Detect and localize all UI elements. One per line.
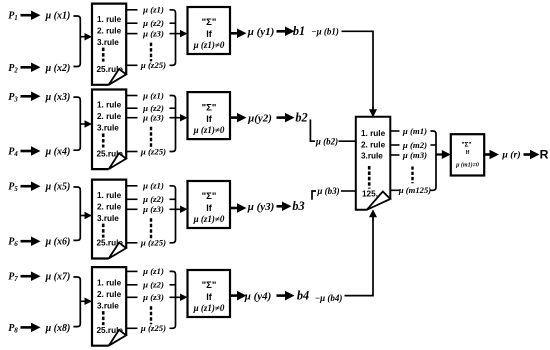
wire z25 left tick row3 <box>126 242 137 244</box>
z ellipsis dots row3 <box>150 218 152 239</box>
label mu(y3) <box>247 201 275 213</box>
node b2 <box>295 110 307 124</box>
wire x5/x6 bus <box>73 187 80 240</box>
label mu(z25) row2 <box>140 146 166 156</box>
rule block 4 ellipsis dots <box>102 311 105 325</box>
label mu(z25) row1 <box>140 60 166 70</box>
svg-text:2. rule: 2. rule <box>97 26 122 35</box>
svg-text:3.rule: 3.rule <box>97 214 119 223</box>
sum block 4 text <box>193 280 225 313</box>
svg-text:2. rule: 2. rule <box>97 112 122 121</box>
svg-text:μ (z3): μ (z3) <box>142 113 164 123</box>
svg-text:μ (r): μ (r) <box>501 149 520 160</box>
arrow into main block top <box>369 107 377 117</box>
wire m2 left tick <box>390 144 399 146</box>
label mu(x3) <box>45 92 71 103</box>
wire z1 left tick row4 <box>126 270 137 272</box>
svg-text:μ (x6): μ (x6) <box>45 237 71 248</box>
node P4 <box>8 147 18 159</box>
rule block 2 box <box>92 90 126 170</box>
label mu(x4) <box>45 147 71 158</box>
arrow P3 to membership <box>21 92 41 102</box>
arrow P4 to membership <box>21 146 41 156</box>
label mu(z2) row2 <box>142 103 164 113</box>
svg-text:1. rule: 1. rule <box>361 129 386 138</box>
wire m3 left tick <box>390 154 399 156</box>
svg-text:μ (x7): μ (x7) <box>45 272 71 283</box>
main rule block text <box>361 129 386 199</box>
label mu(z3) row1 <box>142 28 164 38</box>
rule block 2 folded corner <box>109 153 127 169</box>
svg-text:μ (z1): μ (z1) <box>142 5 164 15</box>
final sum block text <box>455 141 479 168</box>
label mu(z1) row4 <box>142 266 164 276</box>
label mu(z2) row4 <box>142 280 164 290</box>
z ellipsis dots row4 <box>150 306 152 324</box>
arrow to b3 <box>277 202 292 212</box>
svg-text:μ (m3): μ (m3) <box>402 150 427 160</box>
svg-text:μ (x1): μ (x1) <box>45 11 71 22</box>
arrow out of sum block 1 <box>230 29 247 39</box>
wire z3 left tick row3 <box>126 208 137 210</box>
svg-text:μ (z1): μ (z1) <box>142 266 164 276</box>
svg-text:μ (z2): μ (z2) <box>142 280 164 290</box>
wire x7/x8 bus <box>73 277 80 327</box>
svg-text:−μ (b1): −μ (b1) <box>311 26 339 36</box>
wire b3 elbow <box>312 191 316 200</box>
wire z bus row1 <box>170 10 176 66</box>
svg-text:b1: b1 <box>293 24 305 38</box>
label -mu(b1) <box>311 26 339 36</box>
wire b4 to main block bottom <box>345 220 374 296</box>
svg-text:μ (y1): μ (y1) <box>247 26 275 38</box>
sum block 1 text <box>193 17 225 50</box>
rule block 1 box <box>92 4 126 85</box>
node b1 <box>293 24 305 38</box>
arrow P2 to membership <box>21 63 41 73</box>
wire z bus row3 <box>170 186 176 243</box>
arrow P7 to membership <box>21 271 41 281</box>
svg-text:μ (y4): μ (y4) <box>244 290 272 302</box>
main rule block folded corner <box>367 192 391 210</box>
label mu(y4) <box>244 290 272 302</box>
wire z2 left tick row2 <box>126 107 137 109</box>
svg-text:μ (z25): μ (z25) <box>140 60 166 70</box>
label mu(x8) <box>45 323 71 334</box>
node b3 <box>292 199 304 213</box>
svg-text:If: If <box>466 150 470 156</box>
arrow into sum block 3 <box>170 206 188 214</box>
wire z1 left tick row1 <box>126 9 137 11</box>
svg-text:μ (b2): μ (b2) <box>315 136 338 146</box>
svg-text:3.rule: 3.rule <box>97 124 119 133</box>
rule block 3 folded corner <box>109 243 127 259</box>
z ellipsis dots row2 <box>150 127 152 148</box>
wire b1 to main block top <box>342 31 374 108</box>
rule block 3 box <box>92 180 126 259</box>
arrow to b2 <box>277 113 295 123</box>
svg-text:μ (z2): μ (z2) <box>142 194 164 204</box>
rule block 4 text <box>97 278 124 335</box>
arrow into main block bottom <box>369 209 377 221</box>
label mu(z25) row4 <box>140 323 166 333</box>
svg-text:μ (x4): μ (x4) <box>45 147 71 158</box>
svg-text:μ (x3): μ (x3) <box>45 92 71 103</box>
wire z25 left tick row1 <box>126 64 137 66</box>
label mu(y1) <box>247 26 275 38</box>
sum block 2 text <box>193 102 225 135</box>
rule block 1 text <box>97 15 124 74</box>
svg-text:μ (x2): μ (x2) <box>45 63 71 74</box>
node P5 <box>8 182 18 194</box>
m ellipsis dots <box>411 167 413 184</box>
svg-text:1. rule: 1. rule <box>97 101 122 110</box>
node b4 <box>297 288 309 302</box>
label mu(z2) row1 <box>142 18 164 28</box>
wire x1/x2 bus <box>73 16 80 67</box>
wire z1 left tick row3 <box>126 185 137 187</box>
rule block 4 box <box>92 267 126 346</box>
svg-text:"Σ": "Σ" <box>202 102 217 113</box>
label mu(z1) row3 <box>142 181 164 191</box>
label mu(b3) <box>316 186 339 196</box>
node P1 <box>8 11 18 23</box>
svg-text:μ (z25): μ (z25) <box>140 323 166 333</box>
label mu(x7) <box>45 272 71 283</box>
z ellipsis dots row1 <box>150 43 152 62</box>
label mu(r) <box>501 149 520 160</box>
svg-text:2. rule: 2. rule <box>97 290 122 299</box>
arrow P1 to membership <box>21 10 41 20</box>
wire z3 left tick row1 <box>126 33 137 35</box>
svg-text:2. rule: 2. rule <box>97 202 122 211</box>
rule block 3 text <box>97 191 124 248</box>
svg-text:"Σ": "Σ" <box>202 17 217 28</box>
svg-text:μ (y3): μ (y3) <box>247 201 275 213</box>
svg-text:1. rule: 1. rule <box>97 191 122 200</box>
label mu(z1) row2 <box>142 90 164 100</box>
wire mu(b2) to main block <box>339 140 357 142</box>
arrow into rule block 4 <box>80 298 93 306</box>
arrow out of sum block 2 <box>230 113 247 123</box>
arrow into final sum block <box>436 150 451 159</box>
rule block 4 folded corner <box>109 330 127 346</box>
label mu(z3) row2 <box>142 113 164 123</box>
arrow to b4 <box>277 291 295 301</box>
wire z25 left tick row2 <box>126 151 137 153</box>
arrow into rule block 1 <box>80 33 93 41</box>
label mu(z2) row3 <box>142 194 164 204</box>
sum block 3 text <box>193 191 225 224</box>
svg-text:1. rule: 1. rule <box>97 15 122 24</box>
arrow to b1 <box>277 27 295 37</box>
svg-text:μ (z3): μ (z3) <box>142 292 164 302</box>
sum block 1 box <box>188 7 231 54</box>
rule block 2 ellipsis dots <box>102 134 105 148</box>
rule block 1 ellipsis dots <box>102 48 105 62</box>
svg-text:2. rule: 2. rule <box>361 140 386 149</box>
svg-text:μ (z1)≠0: μ (z1)≠0 <box>193 214 225 224</box>
arrow P8 to membership <box>21 323 41 333</box>
svg-text:μ (x8): μ (x8) <box>45 323 71 334</box>
svg-text:μ (m1): μ (m1) <box>402 126 427 136</box>
svg-text:μ (m125): μ (m125) <box>398 185 431 195</box>
svg-text:125.: 125. <box>362 189 378 198</box>
svg-text:"Σ": "Σ" <box>202 280 217 291</box>
label mu(m1) <box>402 126 427 136</box>
svg-text:b4: b4 <box>297 288 309 302</box>
label mu(y2) <box>247 112 272 124</box>
node R <box>540 148 549 162</box>
label mu(m2) <box>402 140 427 150</box>
sum block 4 box <box>188 270 231 317</box>
rule block 2 text <box>97 101 124 159</box>
svg-text:μ (x5): μ (x5) <box>45 182 71 193</box>
wire z bus row4 <box>170 271 176 328</box>
svg-text:μ (z1)≠0: μ (z1)≠0 <box>193 40 225 50</box>
arrow into sum block 4 <box>170 294 188 302</box>
arrow into sum block 1 <box>170 30 188 37</box>
label mu(z3) row4 <box>142 292 164 302</box>
svg-text:μ (z25): μ (z25) <box>140 146 166 156</box>
svg-text:μ (m1)≠0: μ (m1)≠0 <box>455 162 479 169</box>
arrow P6 to membership <box>21 236 41 246</box>
svg-text:1. rule: 1. rule <box>97 278 122 287</box>
svg-text:μ (z25): μ (z25) <box>140 238 166 248</box>
arrow P5 to membership <box>21 181 41 191</box>
svg-text:"Σ": "Σ" <box>202 191 217 202</box>
svg-text:μ (z1): μ (z1) <box>142 181 164 191</box>
wire m1 left tick <box>390 130 399 132</box>
svg-text:μ (z1): μ (z1) <box>142 90 164 100</box>
arrow out of final sum block <box>484 150 499 160</box>
svg-text:μ (z1)≠0: μ (z1)≠0 <box>193 303 225 313</box>
arrow out of sum block 4 <box>230 291 247 301</box>
svg-text:μ (z2): μ (z2) <box>142 18 164 28</box>
wire z2 left tick row4 <box>126 284 137 286</box>
svg-text:3.rule: 3.rule <box>97 38 119 47</box>
wire m bus <box>431 131 437 190</box>
arrow to R <box>524 150 540 160</box>
label mu(x2) <box>45 63 71 74</box>
label mu(z1) row1 <box>142 5 164 15</box>
arrow into rule block 3 <box>80 212 93 220</box>
svg-text:"Σ": "Σ" <box>461 141 471 148</box>
label mu(x5) <box>45 182 71 193</box>
label mu(x6) <box>45 237 71 248</box>
label mu(b2) <box>315 136 338 146</box>
svg-text:3.rule: 3.rule <box>97 301 119 310</box>
svg-text:μ (z2): μ (z2) <box>142 103 164 113</box>
sum block 2 box <box>188 92 231 139</box>
svg-text:μ (z3): μ (z3) <box>142 204 164 214</box>
main rule block ellipsis dots <box>368 166 371 189</box>
svg-text:−μ (b4): −μ (b4) <box>315 293 343 303</box>
label mu(z3) row3 <box>142 204 164 214</box>
label mu(z25) row3 <box>140 238 166 248</box>
rule block 3 ellipsis dots <box>102 224 105 238</box>
label mu(x1) <box>45 11 71 22</box>
svg-text:μ (m2): μ (m2) <box>402 140 427 150</box>
node P6 <box>8 237 18 249</box>
label mu(m3) <box>402 150 427 160</box>
wire mu(b3) to main block <box>341 190 356 192</box>
node P7 <box>8 272 18 284</box>
label -mu(b4) <box>315 293 343 303</box>
node P2 <box>8 63 18 75</box>
wire m125 left tick <box>390 189 399 191</box>
sum block 3 box <box>188 181 231 228</box>
svg-text:b2: b2 <box>295 110 307 124</box>
svg-text:3.rule: 3.rule <box>361 152 383 161</box>
arrow out of sum block 3 <box>230 203 247 213</box>
wire z25 left tick row4 <box>126 327 137 329</box>
svg-text:μ (b3): μ (b3) <box>316 186 339 196</box>
wire z3 left tick row2 <box>126 117 137 119</box>
svg-text:b3: b3 <box>292 199 304 213</box>
wire z bus row2 <box>170 96 176 152</box>
svg-text:μ (z1)≠0: μ (z1)≠0 <box>193 125 225 135</box>
main rule block box <box>356 117 391 210</box>
final sum block box <box>451 134 484 175</box>
node P8 <box>8 323 18 335</box>
label mu(m125) <box>398 185 431 195</box>
wire z2 left tick row1 <box>126 22 137 24</box>
svg-text:R: R <box>540 148 549 162</box>
node P3 <box>8 92 18 104</box>
wire x3/x4 bus <box>73 97 80 150</box>
wire z2 left tick row3 <box>126 198 137 200</box>
svg-text:μ (z3): μ (z3) <box>142 28 164 38</box>
wire z3 left tick row4 <box>126 296 137 298</box>
rule block 1 folded corner <box>109 69 127 85</box>
wire b2 elbow <box>310 120 315 142</box>
wire z1 left tick row2 <box>126 95 137 97</box>
arrow into sum block 2 <box>170 114 188 122</box>
arrow into rule block 2 <box>80 120 93 128</box>
svg-text:μ(y2): μ(y2) <box>247 112 272 124</box>
